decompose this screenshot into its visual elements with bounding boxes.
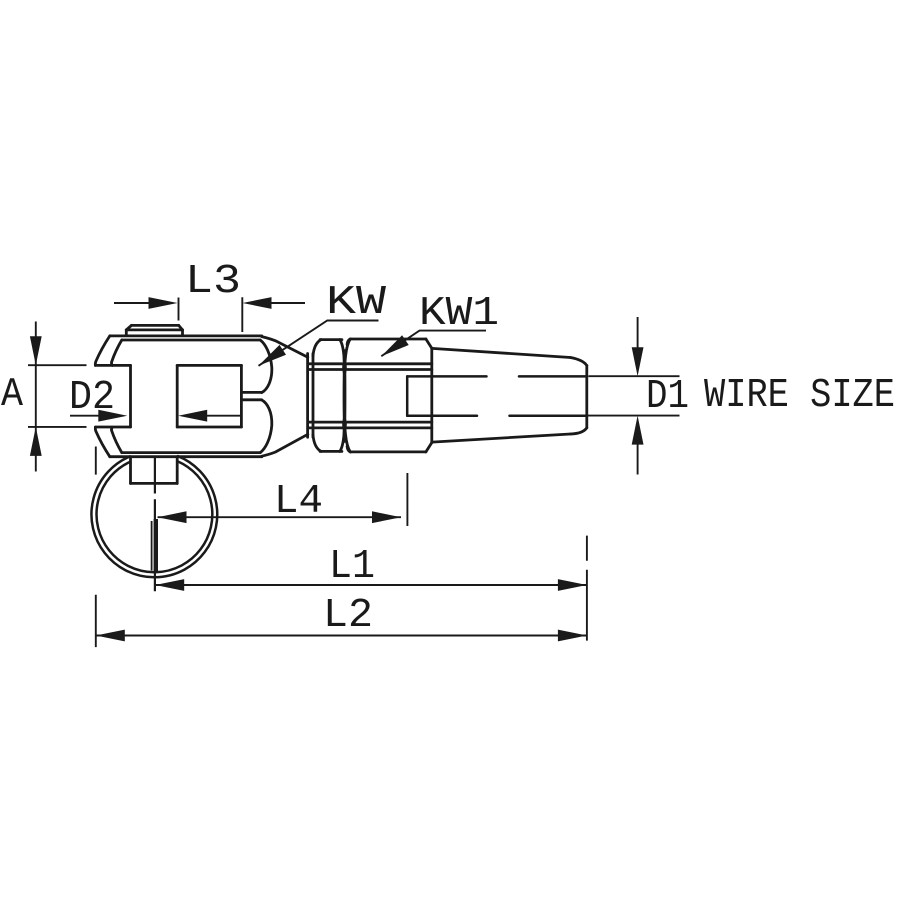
svg-text:L1: L1 (329, 544, 375, 590)
clevis pin (126, 325, 182, 483)
D1 top arrow (632, 347, 644, 376)
pin head chamfers (126, 325, 182, 330)
fork bottom-left tip arc (95, 427, 109, 457)
A dimension vertical (35, 322, 37, 472)
D2 arrow tails (70, 415, 241, 417)
L1/L2 right extension line (586, 536, 588, 641)
slot notch top line (241, 391, 261, 394)
svg-text:L4: L4 (274, 479, 323, 525)
pin head sides (126, 330, 182, 336)
L2 dimension line (96, 635, 587, 637)
L4 right arrow (372, 511, 401, 523)
ring outer circle (91, 456, 217, 578)
A top arrow (30, 336, 42, 365)
D1 arrow shafts (637, 317, 639, 475)
slot top line (95, 364, 241, 367)
A extension lines (28, 365, 87, 427)
pin head top (131, 324, 178, 327)
taper bottom-right corner (571, 428, 587, 434)
svg-text:KW: KW (326, 280, 386, 326)
joint lens right curve (344, 339, 350, 452)
L1 dimension line (155, 584, 587, 586)
pin shaft below fork (131, 457, 178, 484)
pin shaft in slot (131, 365, 178, 427)
body top edge (351, 338, 426, 341)
svg-text:A: A (1, 372, 23, 418)
swage taper (432, 348, 587, 442)
KW1 arrowhead (381, 335, 408, 356)
slot notch bottom line (241, 398, 261, 401)
ring split thin line (151, 521, 153, 571)
L3 left arrow (149, 297, 178, 309)
fork bottom edge (110, 455, 262, 458)
svg-text:D1: D1 (646, 374, 689, 420)
pin bottom edge (131, 482, 178, 485)
hole bottom line dashes (407, 414, 585, 417)
body bottom-right chamfer (426, 443, 432, 452)
hex face line upper pair (308, 364, 432, 370)
slot end vertical (240, 365, 243, 427)
body bottom-left corner (347, 446, 350, 452)
lower dome arc (260, 400, 272, 453)
joint lens core band (343, 351, 346, 441)
taper top edge (432, 348, 571, 357)
hex face line lower pair (308, 422, 432, 428)
nut left face lines (308, 354, 313, 438)
dimension lines (28, 297, 680, 647)
fork body outline (95, 336, 307, 457)
D1 extension lines (580, 376, 680, 415)
pin head mid line (126, 328, 182, 331)
upper dome arc (260, 340, 272, 393)
taper right end (585, 366, 588, 428)
fork inner top line (122, 339, 260, 342)
ring inner circle (97, 461, 213, 572)
nut bottom-left corner (313, 435, 321, 452)
arrowheads (30, 297, 644, 641)
fork top-left tip arc (95, 336, 109, 366)
L3 arrow tails (114, 302, 305, 304)
hex nut (KW) (308, 339, 351, 452)
L2 left arrow (96, 630, 125, 642)
neck top line (262, 337, 308, 358)
hole top line dashes (407, 375, 587, 378)
L4 left arrow (158, 511, 187, 523)
slot bottom line (95, 426, 241, 429)
joint lens upper blob (342, 358, 347, 378)
L3 extension lines (179, 297, 243, 332)
svg-text:KW1: KW1 (419, 291, 499, 337)
joint lens lines (340, 340, 345, 452)
body bottom edge (351, 450, 426, 453)
taper bottom edge (432, 434, 571, 442)
ring split bar (154, 519, 158, 572)
A bottom arrow (30, 427, 42, 456)
neck bottom line (262, 434, 308, 456)
split ring (91, 456, 217, 578)
wire hole hidden lines (407, 376, 587, 415)
hex body (KW1) (308, 339, 432, 452)
body right edge (430, 348, 433, 442)
L3 right arrow (243, 297, 272, 309)
KW1 leader (381, 331, 486, 357)
nut top edge (320, 338, 342, 341)
pin centerline (154, 457, 156, 592)
fork top edge (110, 334, 262, 337)
svg-text:L2: L2 (323, 593, 373, 639)
nut bottom edge (320, 450, 342, 453)
body top-left corner (347, 339, 350, 345)
D2 left arrow (98, 410, 127, 422)
L2 right arrow (558, 630, 587, 642)
L1 left arrow (155, 579, 184, 591)
fork inner top-left arc (111, 340, 121, 365)
fork inner bottom line (122, 451, 260, 454)
svg-text:WIRE SIZE: WIRE SIZE (704, 373, 895, 419)
D2 right arrow (178, 410, 207, 422)
L2 left extension line (95, 447, 97, 648)
hole end vertical (406, 376, 409, 415)
joint lens lower blob (342, 415, 347, 435)
L4 dimension line (158, 516, 402, 518)
taper top-right corner (571, 358, 587, 366)
fork inner bottom-left arc (111, 427, 121, 452)
nut top-left corner (313, 340, 321, 356)
body top-right chamfer (426, 339, 432, 348)
KW leader (259, 321, 379, 366)
D1 bottom arrow (632, 416, 644, 445)
L4 right extension line (406, 473, 408, 526)
svg-text:L3: L3 (185, 259, 241, 305)
svg-text:D2: D2 (69, 375, 115, 421)
L1 right arrow (558, 579, 587, 591)
KW arrowhead (259, 345, 287, 366)
